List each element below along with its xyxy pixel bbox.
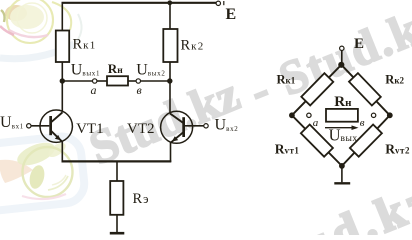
svg-text:в: в (360, 117, 365, 129)
svg-text:VT1: VT1 (76, 121, 104, 137)
svg-text:Rн: Rн (334, 94, 352, 110)
svg-text:Rк1: Rк1 (277, 73, 296, 87)
svg-text:Rэ: Rэ (133, 191, 150, 207)
svg-text:а: а (91, 83, 97, 97)
svg-text:Rк1: Rк1 (73, 37, 97, 53)
svg-text:E: E (354, 36, 364, 52)
svg-text:Rк2: Rк2 (385, 73, 404, 87)
svg-text:а: а (313, 117, 319, 129)
svg-text:VT2: VT2 (127, 121, 155, 137)
svg-text:Rк2: Rк2 (181, 38, 205, 54)
svg-text:E: E (226, 6, 237, 23)
svg-text:в: в (137, 83, 142, 97)
